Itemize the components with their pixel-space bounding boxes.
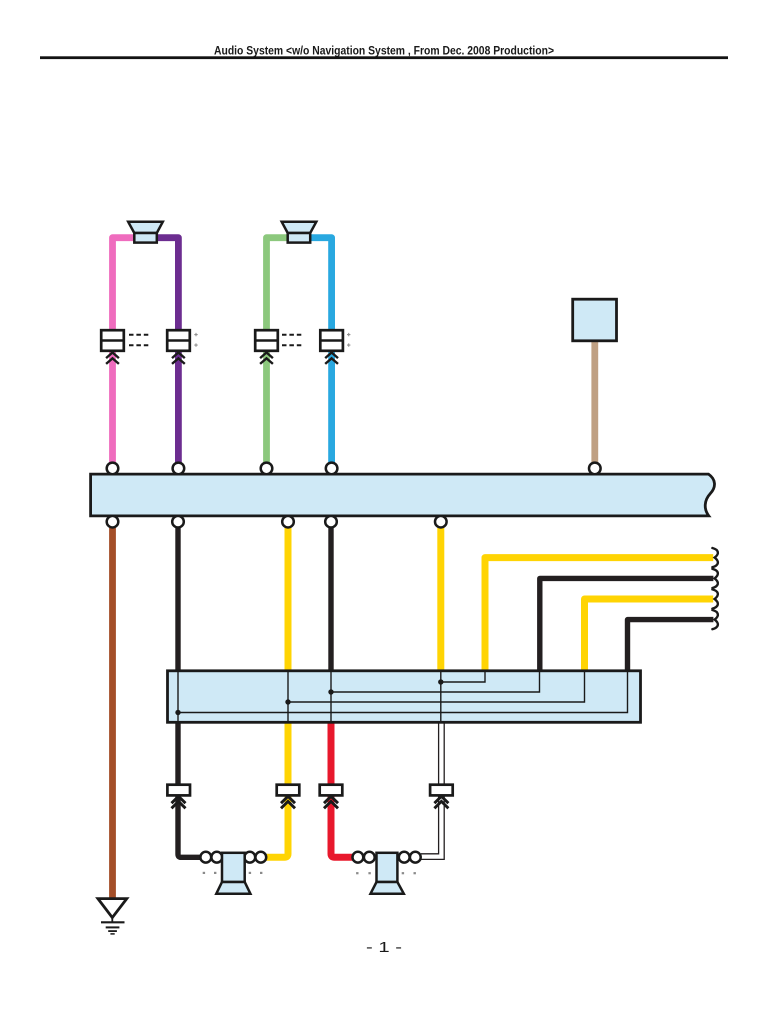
- svg-text:Audio System <w/o Navigation S: Audio System <w/o Navigation System , Fr…: [214, 46, 554, 58]
- svg-text:- 1 -: - 1 -: [366, 939, 402, 956]
